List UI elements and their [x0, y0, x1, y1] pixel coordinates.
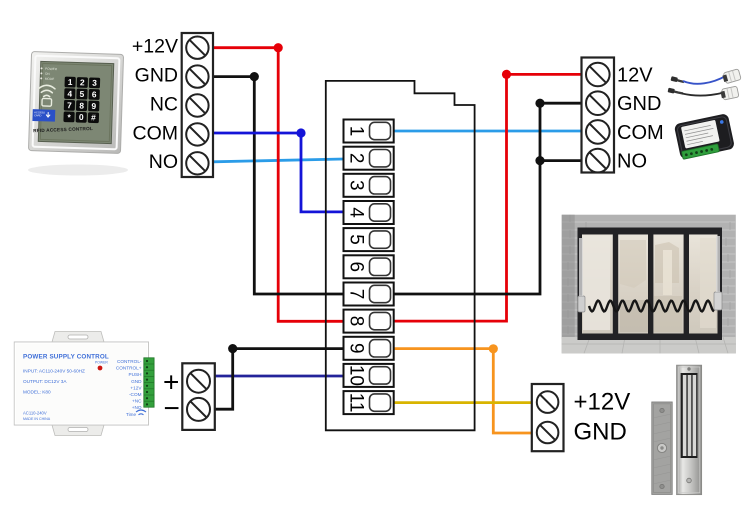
cable blue: [671, 69, 742, 84]
exit button cables photo: [668, 69, 742, 101]
svg-text:CONTROL+: CONTROL+: [116, 366, 142, 371]
screw GND lock: [537, 422, 559, 444]
terminal 5: [344, 228, 394, 251]
junction dot black C: [535, 156, 544, 165]
lock terminal block: [532, 384, 564, 451]
svg-text:10: 10: [345, 365, 366, 386]
svg-text:+NO: +NO: [132, 405, 142, 410]
screw +12V lock: [537, 391, 559, 413]
screw +12V reader: [186, 37, 208, 59]
wall left shading: [562, 215, 575, 339]
svg-text:4: 4: [67, 89, 72, 99]
svg-text:3: 3: [92, 78, 97, 88]
svg-text:7: 7: [345, 289, 366, 300]
terminal 11: [344, 391, 394, 414]
svg-text:9: 9: [345, 343, 366, 354]
svg-text:+12V: +12V: [132, 36, 178, 58]
screw GND right: [586, 91, 610, 115]
svg-text:GND: GND: [574, 419, 627, 446]
svg-text:8: 8: [345, 316, 366, 327]
RFID keypad reader photo: [28, 52, 128, 176]
svg-text:11: 11: [345, 393, 366, 413]
wire black minus(power) to terminal 9: [214, 349, 344, 410]
screw GND reader: [186, 65, 208, 87]
floor: [562, 337, 736, 353]
svg-text:Time: Time: [126, 412, 136, 417]
wifi arcs icon: [39, 85, 55, 97]
svg-text:5: 5: [345, 234, 366, 245]
junction dot black B: [535, 99, 544, 108]
wire blue COM(reader) to terminal 4: [212, 133, 344, 212]
door detector left: [578, 238, 585, 312]
svg-text:GND: GND: [131, 379, 142, 384]
wire cyan NO(reader) to terminal 2: [213, 159, 344, 162]
terminal 8: [344, 310, 394, 333]
screw NO right: [586, 149, 610, 173]
svg-text:NC: NC: [150, 93, 178, 115]
svg-text:MODE: MODE: [45, 77, 55, 81]
svg-text:1: 1: [68, 77, 73, 87]
wire navy plus(power) to terminal 10: [214, 375, 344, 378]
terminal 1: [344, 120, 394, 143]
sliding door photo: [562, 215, 736, 354]
svg-text:CONTROL-: CONTROL-: [117, 359, 142, 364]
svg-text:4: 4: [345, 207, 366, 218]
svg-text:MODEL: K80: MODEL: K80: [23, 390, 51, 395]
wire orange terminal 9 to GND(lock block): [394, 349, 532, 433]
svg-text:3: 3: [345, 180, 366, 191]
svg-text:INPUT: AC110-240V 50-60HZ: INPUT: AC110-240V 50-60HZ: [23, 369, 85, 374]
screw COM right: [586, 120, 610, 144]
svg-text:7: 7: [67, 100, 72, 110]
svg-text:+12V: +12V: [574, 388, 631, 415]
svg-text:COM: COM: [133, 122, 179, 144]
screw minus: [187, 398, 210, 421]
junction dot black D: [228, 344, 237, 353]
screw plus: [187, 370, 210, 393]
svg-text:ON: ON: [45, 72, 51, 76]
armature plate: [652, 402, 672, 494]
panel mullions: [578, 228, 723, 341]
svg-text:9: 9: [91, 101, 96, 111]
svg-text:2: 2: [80, 77, 85, 87]
blue card label: [32, 109, 55, 122]
svg-text:#: #: [91, 112, 96, 122]
terminal 2: [344, 147, 394, 170]
junction dot red B: [502, 70, 511, 79]
junction dot black A: [250, 72, 259, 81]
svg-text:MADE IN CHINA: MADE IN CHINA: [23, 417, 51, 421]
svg-text:POWER: POWER: [45, 67, 58, 71]
svg-text:5: 5: [79, 89, 84, 99]
wire black GND(reader) to terminal 7: [212, 77, 344, 294]
svg-text:8: 8: [79, 101, 84, 111]
door detector right: [714, 236, 722, 310]
controller board outline: [326, 81, 475, 430]
svg-text:−: −: [164, 393, 180, 424]
terminal 3: [344, 174, 394, 197]
svg-text:COM: COM: [617, 122, 664, 144]
wire red terminal 8 to 12V(right block): [394, 74, 582, 321]
svg-text:PUSH: PUSH: [128, 372, 141, 377]
wire black terminal 7 to GND(right block): [394, 103, 582, 294]
brick texture: [562, 222, 736, 334]
svg-text:12V: 12V: [617, 64, 653, 86]
svg-text:NO: NO: [149, 151, 178, 173]
wire yellow terminal 11 to +12V(lock block): [394, 401, 532, 404]
junction dot orange: [489, 344, 498, 353]
svg-text:+12V: +12V: [130, 385, 142, 390]
coiled cable across doors: [589, 301, 714, 312]
svg-text:0: 0: [79, 112, 84, 122]
screw NO reader: [186, 152, 208, 174]
svg-text:-COM: -COM: [129, 392, 142, 397]
power plus-minus terminal block: [182, 363, 215, 430]
wire cyan terminal 1 to COM(right block): [394, 130, 582, 133]
svg-text:GND: GND: [135, 65, 178, 87]
svg-text:6: 6: [345, 262, 366, 273]
svg-text:OUTPUT: DC12V 3A: OUTPUT: DC12V 3A: [23, 379, 67, 384]
wire red +12V(reader) to junction: [212, 48, 344, 322]
screw COM reader: [186, 123, 208, 145]
svg-text:6: 6: [92, 89, 97, 99]
screw NC reader: [186, 94, 208, 116]
indicator labels: [40, 67, 58, 82]
svg-text:CARD: CARD: [34, 113, 42, 117]
maglock body: [677, 365, 702, 494]
svg-text:GND: GND: [617, 93, 661, 115]
svg-text:2: 2: [345, 153, 366, 164]
interior reflections: [583, 236, 716, 332]
terminal 4: [344, 201, 394, 224]
svg-text:+NC: +NC: [132, 399, 142, 404]
magnetic lock photo: [652, 365, 702, 494]
svg-text:AC110-240V: AC110-240V: [23, 411, 47, 416]
terminal 6: [344, 255, 394, 278]
power supply photo: [14, 332, 154, 436]
glass panels: [582, 235, 719, 334]
svg-text:1: 1: [345, 126, 366, 137]
svg-text:NO: NO: [617, 151, 647, 173]
relay module photo: [674, 113, 735, 160]
right terminal block: [582, 58, 615, 173]
reader terminal block: [182, 33, 213, 177]
door frame: [578, 228, 723, 341]
terminal 10: [344, 364, 394, 387]
screw 12V right: [586, 63, 610, 87]
terminal 9: [344, 337, 394, 360]
psu green terminal strip: [144, 358, 154, 407]
wire black stub to NO(right block): [540, 159, 582, 162]
relay green terminal strip: [682, 144, 720, 160]
svg-text:POWER: POWER: [95, 361, 108, 365]
junction dot blue: [296, 128, 305, 137]
junction dot red A: [274, 43, 283, 52]
keypad keys: [63, 77, 100, 123]
cable black: [668, 86, 739, 100]
terminal 7: [344, 283, 394, 306]
svg-text:POWER SUPPLY CONTROL: POWER SUPPLY CONTROL: [23, 354, 109, 361]
